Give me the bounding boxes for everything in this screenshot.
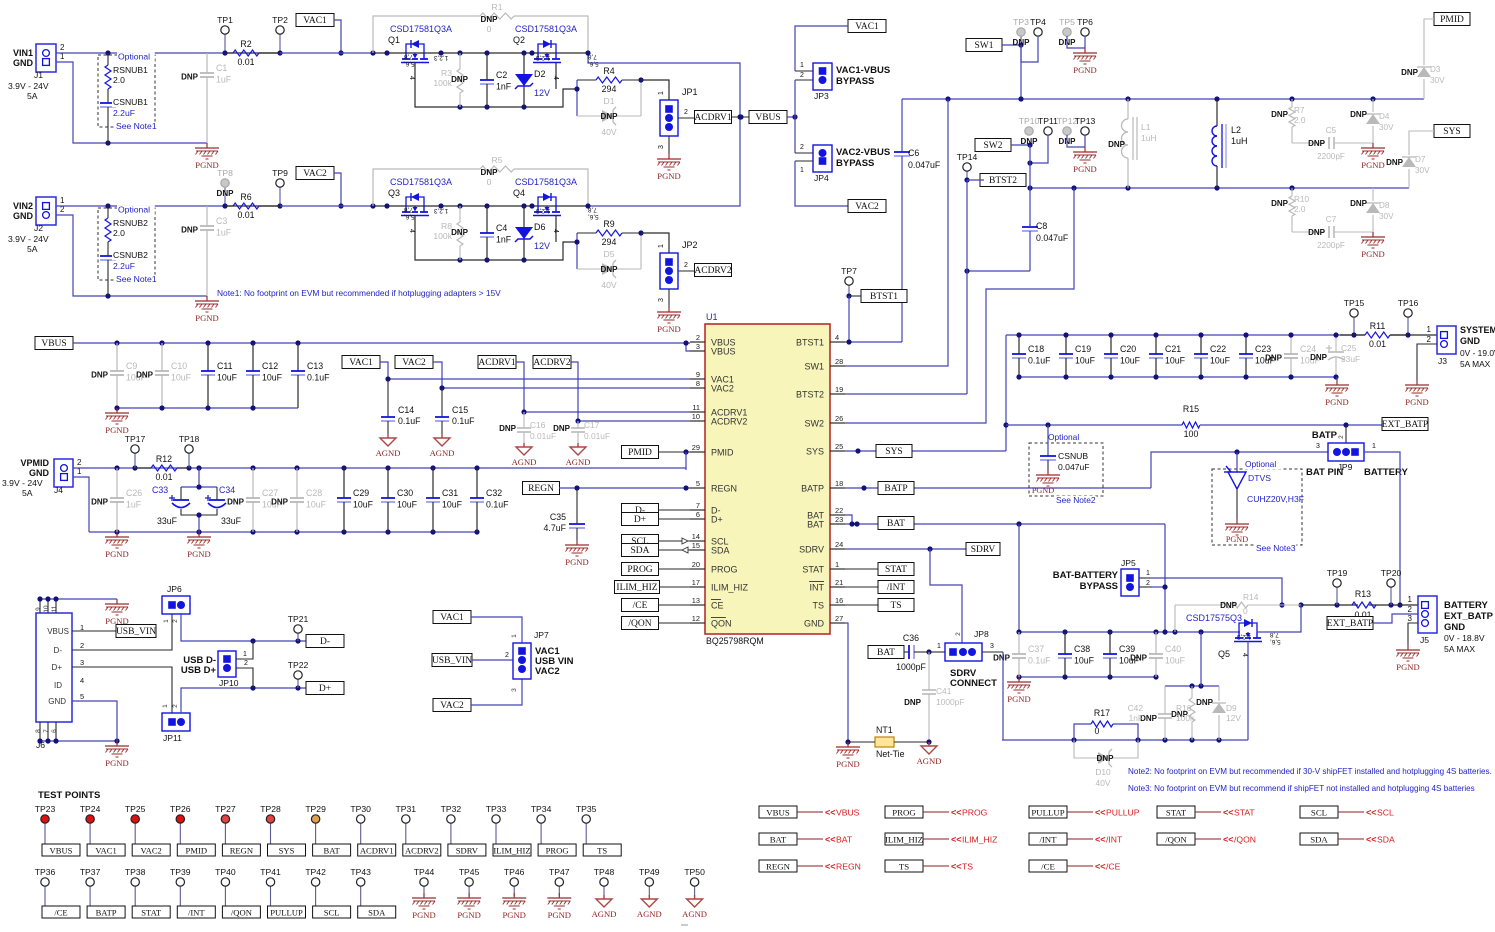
net alias SCL bbox=[1300, 806, 1394, 818]
svg-text:BAT: BAT bbox=[323, 846, 340, 856]
wire TP6 to ground bbox=[1084, 36, 1086, 48]
wire PMID to U1 bbox=[659, 451, 691, 453]
svg-text:2: 2 bbox=[1338, 435, 1345, 439]
capacitor C8 bbox=[967, 221, 1069, 271]
svg-text:DNP: DNP bbox=[136, 371, 154, 380]
wire J6 pin3 D+ to JP11 bbox=[72, 667, 172, 713]
svg-text:TS: TS bbox=[890, 601, 901, 611]
test point TP2 bbox=[272, 15, 288, 53]
svg-text:C41: C41 bbox=[936, 686, 952, 696]
svg-text:C34: C34 bbox=[219, 485, 235, 495]
net label D- bbox=[622, 504, 659, 517]
svg-text:CSD17581Q3A: CSD17581Q3A bbox=[390, 24, 452, 34]
test point TP18 bbox=[179, 434, 200, 468]
power ground PGND bbox=[105, 599, 129, 626]
svg-text:C4: C4 bbox=[496, 223, 507, 233]
svg-text:PMID: PMID bbox=[1440, 15, 1464, 25]
svg-text:D+: D+ bbox=[711, 515, 723, 525]
diode (DNP) bbox=[602, 107, 616, 125]
wire JP1 pin2 to ACDRV1 bbox=[678, 117, 695, 119]
svg-text:GND: GND bbox=[48, 697, 66, 706]
svg-text:C29: C29 bbox=[353, 488, 369, 498]
svg-text:C3: C3 bbox=[216, 216, 227, 226]
svg-text:USB D+: USB D+ bbox=[181, 665, 217, 676]
jumper JP11 bbox=[162, 713, 190, 731]
svg-text:TP30: TP30 bbox=[350, 804, 371, 814]
connector J2 bbox=[8, 196, 65, 254]
svg-text:VAC2: VAC2 bbox=[402, 358, 426, 368]
svg-text:PGND: PGND bbox=[1325, 397, 1348, 407]
wire STAT net bbox=[845, 568, 878, 570]
svg-text:Note2: No footprint on EVM but: Note2: No footprint on EVM but recommend… bbox=[1128, 767, 1492, 776]
wire BTST1 pin to C6 bbox=[845, 341, 902, 343]
svg-text:<<: << bbox=[951, 835, 962, 845]
wire VIN2 to rail bbox=[56, 205, 225, 207]
svg-text:C17: C17 bbox=[584, 420, 600, 430]
wire J5 pin3 to ground bbox=[1408, 623, 1418, 645]
svg-text:AGND: AGND bbox=[430, 448, 455, 458]
resistor R12 bbox=[135, 454, 189, 482]
svg-text:R4: R4 bbox=[603, 66, 614, 76]
svg-text:R5: R5 bbox=[492, 155, 503, 165]
wire JP5 pin1 bbox=[1139, 577, 1150, 579]
net label /INT (u1) bbox=[878, 581, 914, 594]
svg-text:DNP: DNP bbox=[1196, 698, 1214, 707]
net-tie NT1 bbox=[875, 725, 905, 759]
svg-text:/QON: /QON bbox=[231, 908, 253, 918]
analog ground AGND bbox=[376, 434, 401, 458]
test point TP32 bbox=[441, 804, 462, 844]
capacitor C29 bbox=[337, 468, 374, 532]
svg-text:<<: << bbox=[1223, 808, 1234, 818]
svg-text:DNP: DNP bbox=[1310, 353, 1328, 362]
svg-text:VBUS: VBUS bbox=[711, 347, 736, 357]
wire J2 pin1 down bbox=[56, 215, 207, 296]
net label VAC1 (jp7) bbox=[433, 611, 471, 624]
power ground PGND bbox=[187, 532, 211, 559]
svg-text:DNP: DNP bbox=[91, 498, 109, 507]
jumper JP6 bbox=[162, 596, 190, 614]
svg-text:C26: C26 bbox=[126, 488, 142, 498]
svg-text:1: 1 bbox=[937, 643, 941, 650]
net label SW2 bbox=[975, 139, 1011, 152]
wire VPMID ground rail bbox=[89, 531, 477, 533]
svg-text:0.1uF: 0.1uF bbox=[1028, 356, 1051, 366]
svg-text:1: 1 bbox=[243, 651, 247, 658]
net label VBUS bbox=[749, 111, 787, 124]
svg-text:TP9: TP9 bbox=[272, 168, 288, 178]
resistor R1 (DNP bypass) bbox=[373, 2, 588, 53]
wire SW1 pin to rail bbox=[845, 99, 948, 366]
svg-text:SYSTEM: SYSTEM bbox=[1460, 325, 1495, 335]
svg-text:BTST1: BTST1 bbox=[796, 338, 824, 348]
resistor RSNUB2 bbox=[105, 206, 148, 252]
diode D10 (DNP) bbox=[1074, 740, 1138, 788]
svg-text:R17: R17 bbox=[1094, 708, 1110, 718]
svg-text:3: 3 bbox=[696, 342, 700, 351]
svg-text:TP7: TP7 bbox=[841, 266, 857, 276]
diode (DNP) bbox=[1417, 67, 1431, 77]
net label BAT (jp8) bbox=[868, 646, 904, 659]
svg-text:STAT: STAT bbox=[1166, 808, 1187, 818]
net label VAC1 (tp row1) bbox=[87, 844, 125, 856]
test point TP26 bbox=[170, 804, 191, 844]
svg-text:C5: C5 bbox=[1326, 126, 1337, 135]
svg-text:TP44: TP44 bbox=[414, 867, 435, 877]
U1 pin 15 SDA bbox=[690, 541, 730, 556]
net alias /QON bbox=[1157, 833, 1256, 845]
test point TP36 bbox=[35, 867, 56, 906]
capacitor C10 bbox=[136, 343, 192, 408]
svg-text:TP43: TP43 bbox=[350, 867, 371, 877]
svg-text:TP14: TP14 bbox=[957, 152, 978, 162]
power ground PGND bbox=[195, 296, 219, 323]
wire rail through FETs bbox=[280, 205, 373, 207]
U1 pin 13 CE bbox=[690, 596, 724, 611]
svg-text:<<: << bbox=[1366, 808, 1377, 818]
svg-text:30V: 30V bbox=[1430, 76, 1445, 85]
capacitor C42 (DNP) bbox=[1128, 686, 1172, 740]
power ground PGND bbox=[1361, 143, 1385, 170]
net label SDA (tp row2) bbox=[358, 906, 396, 918]
svg-text:2: 2 bbox=[1408, 605, 1413, 614]
net label SCL bbox=[622, 535, 659, 548]
svg-text:SYS: SYS bbox=[1443, 127, 1460, 137]
svg-text:1,2,3: 1,2,3 bbox=[1237, 633, 1252, 640]
wire SW2 pin to rail bbox=[845, 188, 1074, 423]
resistor R16 (DNP) bbox=[1171, 686, 1195, 740]
svg-text:3: 3 bbox=[80, 658, 84, 667]
svg-text:DNP: DNP bbox=[1271, 199, 1289, 208]
svg-text:<<: << bbox=[825, 862, 836, 872]
svg-text:29: 29 bbox=[692, 443, 700, 452]
test point TP22 bbox=[288, 660, 309, 688]
wire JP10 pin1 bbox=[236, 641, 253, 659]
svg-text:STAT: STAT bbox=[885, 565, 907, 575]
svg-text:R10: R10 bbox=[1294, 195, 1309, 204]
svg-text:DNP: DNP bbox=[481, 168, 499, 177]
svg-text:TS: TS bbox=[597, 846, 607, 856]
net label /INT (tp row2) bbox=[177, 906, 215, 918]
wire JP9 pin1 to J5 bbox=[1364, 452, 1400, 605]
svg-text:/INT: /INT bbox=[887, 583, 906, 593]
diode (DNP) bbox=[1212, 703, 1226, 713]
svg-text:TP21: TP21 bbox=[288, 614, 309, 624]
svg-text:GND: GND bbox=[29, 468, 50, 478]
resistor R3 (DNP) bbox=[433, 53, 468, 107]
svg-text:25: 25 bbox=[835, 442, 843, 451]
capacitor C9 bbox=[91, 343, 147, 408]
U1 pin 4 BTST1 bbox=[796, 333, 845, 348]
svg-text:0.01uF: 0.01uF bbox=[584, 431, 610, 441]
svg-text:0: 0 bbox=[487, 177, 492, 187]
jumper JP5 bbox=[1121, 569, 1139, 596]
capacitor C23 bbox=[1239, 335, 1276, 377]
wire BATP net bbox=[845, 487, 1151, 489]
svg-text:BAT: BAT bbox=[770, 835, 787, 845]
optional DTVS box bbox=[1212, 459, 1304, 553]
svg-text:PULLUP: PULLUP bbox=[1031, 808, 1064, 818]
svg-text:DNP: DNP bbox=[1108, 140, 1126, 149]
jumper JP2 bbox=[660, 253, 678, 289]
svg-text:PGND: PGND bbox=[105, 549, 128, 559]
power ground PGND bbox=[1036, 470, 1060, 486]
wire VBUS column bbox=[588, 53, 740, 206]
svg-text:1: 1 bbox=[60, 196, 65, 205]
wire C36 to JP8 pin1 bbox=[929, 651, 945, 653]
net label STAT (u1) bbox=[878, 563, 914, 576]
svg-text:See Note1: See Note1 bbox=[116, 121, 157, 131]
svg-text:DNP: DNP bbox=[553, 424, 571, 433]
svg-text:GND: GND bbox=[13, 211, 34, 221]
svg-text:10uF: 10uF bbox=[397, 500, 418, 510]
wire FET source rail bbox=[415, 216, 577, 261]
svg-text:AGND: AGND bbox=[682, 909, 707, 919]
svg-text:5A: 5A bbox=[22, 488, 33, 498]
wire NT1 to AGND bbox=[894, 741, 929, 743]
wire ILIM_HIZ to U1 bbox=[660, 586, 691, 588]
net alias SDA bbox=[1300, 833, 1395, 845]
svg-text:PGND: PGND bbox=[1226, 535, 1248, 544]
svg-text:1: 1 bbox=[1146, 570, 1150, 577]
svg-text:PGND: PGND bbox=[565, 557, 588, 567]
net label VAC2 (tp row1) bbox=[132, 844, 170, 856]
svg-text:TP10: TP10 bbox=[1019, 116, 1040, 126]
net label VAC2 (mid) bbox=[395, 356, 433, 369]
net label EXT_BATP (top) bbox=[1382, 418, 1428, 431]
wire TP13 to ground bbox=[1084, 135, 1086, 147]
svg-text:21: 21 bbox=[835, 578, 843, 587]
svg-text:TP37: TP37 bbox=[80, 867, 101, 877]
svg-text:0V - 18.8V: 0V - 18.8V bbox=[1444, 633, 1485, 643]
connector J1 bbox=[8, 43, 65, 101]
test point TP14 bbox=[957, 152, 978, 180]
svg-text:R6: R6 bbox=[240, 192, 251, 202]
svg-text:15: 15 bbox=[692, 541, 700, 550]
svg-text:C6: C6 bbox=[908, 148, 919, 158]
svg-text:DNP: DNP bbox=[993, 654, 1011, 663]
svg-text:SDA: SDA bbox=[1377, 835, 1395, 845]
svg-text:Q2: Q2 bbox=[513, 35, 525, 45]
resistor RSNUB1 bbox=[105, 53, 148, 99]
wire J6 pin1 VBUS to USB_VIN bbox=[72, 630, 117, 632]
svg-text:PGND: PGND bbox=[502, 910, 525, 920]
wire J6 shield pins to ground (top) bbox=[39, 599, 41, 613]
svg-text:VAC1-VBUS: VAC1-VBUS bbox=[836, 65, 890, 76]
wire SYS to D7 bbox=[1409, 131, 1434, 155]
svg-text:SDRV: SDRV bbox=[971, 545, 996, 555]
optional snubber box (RSNUB2/CSNUB2) bbox=[98, 205, 155, 281]
svg-text:TP35: TP35 bbox=[576, 804, 597, 814]
svg-text:C25: C25 bbox=[1341, 343, 1357, 353]
svg-text:2: 2 bbox=[684, 262, 688, 269]
svg-text:CSNUB: CSNUB bbox=[1058, 451, 1088, 461]
net label VBUS bbox=[35, 337, 73, 350]
svg-text:TP15: TP15 bbox=[1344, 298, 1365, 308]
U1 pin 10 ACDRV2 bbox=[690, 412, 747, 427]
svg-text:10uF: 10uF bbox=[1074, 656, 1095, 666]
svg-text:TP28: TP28 bbox=[260, 804, 281, 814]
wire VAC1 to JP7 pin1 bbox=[471, 617, 522, 644]
svg-text:PGND: PGND bbox=[548, 910, 571, 920]
capacitor C33 bbox=[169, 495, 190, 508]
svg-text:ID: ID bbox=[54, 681, 62, 690]
capacitor C25 (DNP electrolytic) bbox=[1310, 335, 1360, 377]
svg-text:VAC1: VAC1 bbox=[855, 22, 879, 32]
optional snubber box (RSNUB1/CSNUB1) bbox=[98, 52, 155, 128]
net label PMID bbox=[622, 446, 659, 459]
svg-text:DNP: DNP bbox=[1386, 158, 1404, 167]
net label ACDRV1 bbox=[694, 111, 731, 124]
svg-text:28: 28 bbox=[835, 357, 843, 366]
net label ILIM_HIZ (tp row1) bbox=[493, 844, 531, 856]
svg-text:GND: GND bbox=[804, 619, 825, 629]
svg-text:ILIM_HIZ: ILIM_HIZ bbox=[616, 583, 657, 593]
svg-text:ILIM_HIZ: ILIM_HIZ bbox=[962, 835, 997, 845]
svg-text:CE: CE bbox=[711, 601, 724, 611]
power ground PGND bbox=[657, 154, 681, 181]
net label SDRV (tp row1) bbox=[448, 844, 486, 856]
test point TP27 bbox=[215, 804, 236, 844]
svg-text:VBUS: VBUS bbox=[755, 113, 780, 123]
power ground PGND bbox=[1073, 147, 1097, 174]
svg-text:27: 27 bbox=[835, 614, 843, 623]
wire VBUS label to VAC1/VAC2 jumpers bbox=[787, 116, 795, 118]
svg-text:DNP: DNP bbox=[601, 265, 619, 274]
svg-text:VIN2: VIN2 bbox=[13, 201, 33, 211]
svg-text:ACDRV1: ACDRV1 bbox=[360, 846, 394, 856]
svg-text:PMID: PMID bbox=[711, 448, 734, 458]
wire TP7 to BTST1 label bbox=[849, 295, 861, 297]
net label ILIM_HIZ bbox=[615, 581, 660, 594]
wire VAC2 to U1 pin8 bbox=[433, 362, 690, 388]
svg-text:JP1: JP1 bbox=[682, 87, 698, 97]
svg-text:<<: << bbox=[1095, 808, 1106, 818]
wire JP2 pin3 to ground bbox=[668, 289, 670, 307]
svg-text:2: 2 bbox=[800, 72, 804, 79]
svg-text:TP50: TP50 bbox=[684, 867, 705, 877]
svg-text:PGND: PGND bbox=[1361, 249, 1384, 259]
net label /QON (tp row2) bbox=[222, 906, 260, 918]
svg-text:TP11: TP11 bbox=[1038, 116, 1058, 126]
net alias ILIM_HIZ bbox=[885, 833, 997, 845]
svg-text:2.0: 2.0 bbox=[113, 228, 125, 238]
svg-text:1: 1 bbox=[1372, 443, 1376, 450]
wire /INT net bbox=[845, 586, 878, 588]
svg-text:TP1: TP1 bbox=[217, 15, 233, 25]
net label STAT (tp row2) bbox=[132, 906, 170, 918]
U1 pin 12 QON bbox=[690, 614, 732, 629]
net label VAC2 bbox=[296, 167, 334, 180]
svg-text:PGND: PGND bbox=[1032, 486, 1054, 495]
power ground PGND bbox=[1007, 677, 1031, 704]
capacitor C6 bbox=[894, 99, 941, 342]
net label REGN bbox=[523, 482, 560, 495]
svg-text:REGN: REGN bbox=[528, 484, 554, 494]
svg-text:C13: C13 bbox=[307, 361, 323, 371]
svg-text:SDA: SDA bbox=[711, 546, 730, 556]
svg-text:ACDRV2: ACDRV2 bbox=[405, 846, 439, 856]
svg-text:TP45: TP45 bbox=[459, 867, 480, 877]
svg-text:/CE: /CE bbox=[1106, 862, 1121, 872]
svg-text:C31: C31 bbox=[442, 488, 458, 498]
svg-text:CSD17581Q3A: CSD17581Q3A bbox=[390, 177, 452, 187]
U1 pin 17 ILIM_HIZ bbox=[690, 578, 749, 593]
svg-text:BAT: BAT bbox=[887, 519, 905, 529]
wire VAC1 bbox=[334, 20, 341, 53]
svg-text:STAT: STAT bbox=[1234, 808, 1255, 818]
svg-text:13: 13 bbox=[692, 596, 700, 605]
svg-text:2: 2 bbox=[1146, 580, 1150, 587]
svg-text:C40: C40 bbox=[1165, 644, 1181, 654]
test point TP11 bbox=[1038, 116, 1058, 135]
diode D8 (DNP) bbox=[1350, 188, 1394, 232]
net label PROG (tp row1) bbox=[538, 844, 576, 856]
test point TP35 bbox=[576, 804, 597, 844]
svg-text:ACDRV1: ACDRV1 bbox=[694, 113, 731, 123]
svg-text:DNP: DNP bbox=[1350, 110, 1368, 119]
wire D+ to U1 bbox=[659, 518, 691, 520]
net label VAC1 bbox=[296, 14, 334, 27]
net label /CE (tp row2) bbox=[42, 906, 80, 918]
svg-text:EXT_BATP: EXT_BATP bbox=[1444, 611, 1494, 622]
capacitor C5 (DNP) bbox=[1292, 126, 1373, 161]
svg-text:294: 294 bbox=[602, 237, 617, 247]
net label SYS bbox=[1434, 125, 1470, 138]
U1 pin 3 VBUS bbox=[690, 342, 736, 357]
wire ACDRV1 to U1 pin11 bbox=[516, 362, 690, 412]
wire SCL to U1 bbox=[659, 540, 691, 542]
svg-text:40V: 40V bbox=[601, 127, 617, 137]
wire BAT net bbox=[845, 515, 852, 524]
svg-text:<<: << bbox=[1366, 835, 1377, 845]
svg-text:7,8: 7,8 bbox=[404, 53, 413, 60]
wire SW1 to TP4 bbox=[1002, 44, 1021, 46]
net label VBUS (tp row1) bbox=[42, 844, 80, 856]
svg-text:3: 3 bbox=[511, 688, 518, 692]
svg-text:DNP: DNP bbox=[1308, 139, 1326, 148]
svg-text:See Note2: See Note2 bbox=[1056, 495, 1096, 505]
svg-text:<<: << bbox=[1095, 835, 1106, 845]
svg-text:ACDRV2: ACDRV2 bbox=[711, 417, 747, 427]
svg-text:VAC2: VAC2 bbox=[303, 169, 327, 179]
capacitor C26 bbox=[91, 468, 142, 532]
svg-text:Q4: Q4 bbox=[513, 188, 525, 198]
svg-text:TS: TS bbox=[899, 862, 909, 872]
net alias TS bbox=[885, 860, 973, 872]
net alias PULLUP bbox=[1029, 806, 1140, 818]
svg-text:DNP: DNP bbox=[91, 371, 109, 380]
wire rail through FETs bbox=[280, 52, 373, 54]
wire EXT_BATP to J5 pin2 bbox=[1373, 614, 1418, 623]
power ground PGND bbox=[1073, 48, 1097, 75]
net label VAC1 (mid) bbox=[342, 356, 380, 369]
wire JP1 row to VBUS bbox=[732, 116, 749, 118]
svg-text:0.1uF: 0.1uF bbox=[486, 500, 509, 510]
svg-text:33uF: 33uF bbox=[157, 516, 178, 526]
test point TP40 bbox=[215, 867, 236, 906]
net label EXT_BATP (j5) bbox=[1327, 617, 1373, 630]
svg-text:2: 2 bbox=[1427, 335, 1432, 344]
wire VAC1 to JP3 pin1 bbox=[795, 26, 848, 71]
svg-text:10uF: 10uF bbox=[171, 373, 192, 383]
net alias PROG bbox=[885, 806, 988, 818]
svg-text:C20: C20 bbox=[1120, 344, 1136, 354]
inductor L1 (DNP) bbox=[1108, 99, 1157, 188]
svg-text:C27: C27 bbox=[262, 488, 278, 498]
svg-text:SCL: SCL bbox=[1311, 808, 1327, 818]
svg-text:REGN: REGN bbox=[766, 862, 791, 872]
